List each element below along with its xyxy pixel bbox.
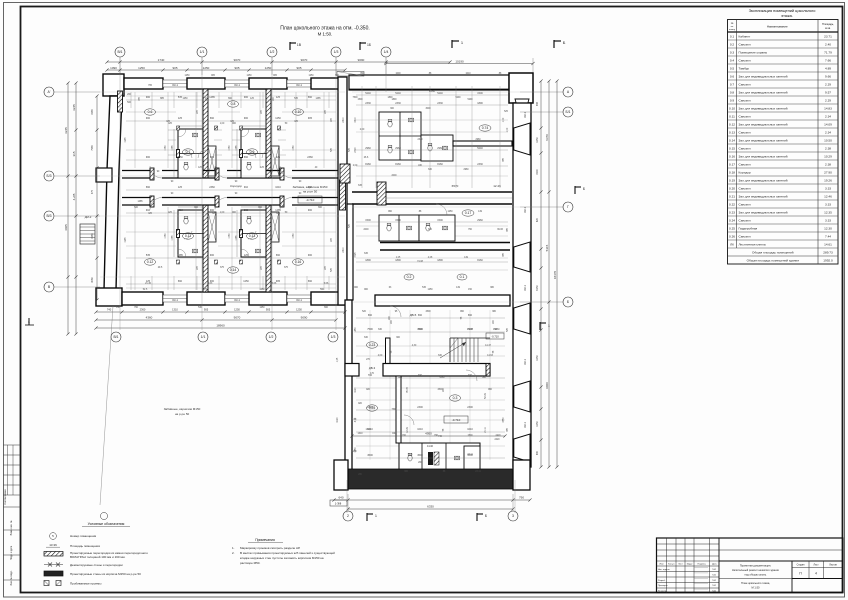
svg-text:71.79: 71.79 bbox=[824, 50, 832, 54]
svg-text:Забивка, кирпичом М150: Забивка, кирпичом М150 bbox=[293, 185, 328, 189]
svg-text:0.10: 0.10 bbox=[729, 106, 735, 110]
svg-text:1890: 1890 bbox=[391, 99, 397, 101]
svg-text:5290: 5290 bbox=[455, 97, 461, 99]
svg-text:Санузел: Санузел bbox=[739, 98, 751, 102]
svg-text:790: 790 bbox=[519, 496, 524, 500]
svg-text:1250: 1250 bbox=[184, 75, 190, 77]
svg-text:14.63: 14.63 bbox=[487, 355, 493, 357]
svg-text:1250: 1250 bbox=[447, 211, 453, 213]
svg-text:Лестничная клетка: Лестничная клетка bbox=[739, 242, 766, 246]
svg-text:Санузел: Санузел bbox=[739, 218, 751, 222]
right block top wall bbox=[349, 75, 509, 90]
legend item demolished walls bbox=[44, 564, 63, 566]
svg-text:П-02: П-02 bbox=[712, 569, 716, 571]
svg-text:7.66: 7.66 bbox=[825, 58, 831, 62]
svg-text:2360: 2360 bbox=[209, 186, 215, 189]
horizontal axis lines right bbox=[352, 91, 520, 93]
svg-text:П-02: П-02 bbox=[712, 574, 716, 576]
door arcs pods bottom row bbox=[184, 231, 192, 239]
left small chain bbox=[96, 96, 98, 300]
svg-text:Б/3: Б/3 bbox=[46, 174, 51, 178]
svg-text:289.73: 289.73 bbox=[823, 251, 833, 255]
tower room labels bbox=[404, 274, 414, 280]
section mark Б top bbox=[553, 40, 555, 48]
svg-text:7965: 7965 bbox=[91, 145, 94, 151]
svg-text:А': А' bbox=[48, 90, 51, 94]
svg-text:5240: 5240 bbox=[395, 92, 401, 95]
svg-text:Зал для индивидуальных занятий: Зал для индивидуальных занятий bbox=[739, 74, 788, 78]
svg-text:Пробиваемые проемы: Пробиваемые проемы bbox=[70, 582, 101, 586]
svg-text:2.34: 2.34 bbox=[825, 130, 831, 134]
svg-text:Зал для индивидуальных занятий: Зал для индивидуальных занятий bbox=[739, 210, 788, 214]
svg-text:375: 375 bbox=[91, 189, 94, 194]
svg-text:4950: 4950 bbox=[425, 432, 432, 436]
svg-text:0.3: 0.3 bbox=[730, 50, 735, 54]
svg-text:Зал для индивидуальных занятий: Зал для индивидуальных занятий bbox=[739, 154, 788, 158]
corridor column left bbox=[377, 182, 386, 205]
svg-text:35.05: 35.05 bbox=[407, 386, 409, 392]
svg-text:660: 660 bbox=[468, 314, 473, 317]
svg-text:12.30: 12.30 bbox=[824, 226, 832, 230]
svg-text:ОК-1: ОК-1 bbox=[172, 83, 178, 87]
svg-text:1250: 1250 bbox=[234, 308, 240, 312]
flag 1ЭФ bbox=[330, 500, 347, 506]
wall to right wall bbox=[453, 141, 512, 146]
window trapezoid 4 bbox=[514, 381, 530, 412]
left dim chain 2 bbox=[75, 83, 77, 334]
svg-text:1485: 1485 bbox=[137, 201, 143, 203]
svg-text:-0.710: -0.710 bbox=[491, 335, 499, 339]
svg-text:5.66: 5.66 bbox=[272, 283, 277, 285]
svg-text:0.16: 0.16 bbox=[295, 260, 302, 264]
svg-text:0.15: 0.15 bbox=[729, 146, 735, 150]
window ОК-1 bottom bbox=[225, 295, 249, 302]
room label 0.10 bbox=[293, 109, 304, 115]
faint interior lines left block bbox=[126, 111, 176, 113]
svg-text:2410: 2410 bbox=[343, 247, 345, 253]
legend item new brick walls bbox=[44, 571, 63, 576]
svg-text:ДВ-3: ДВ-3 bbox=[369, 366, 376, 370]
svg-text:1250: 1250 bbox=[536, 355, 539, 361]
svg-text:1000: 1000 bbox=[417, 329, 423, 331]
svg-text:ОК-1: ОК-1 bbox=[296, 83, 302, 87]
svg-text:1890: 1890 bbox=[477, 102, 483, 105]
wall below corridor bbox=[375, 295, 510, 306]
block border wall bbox=[338, 77, 347, 305]
svg-text:Согласовано: Согласовано bbox=[3, 489, 7, 505]
svg-text:0.74: 0.74 bbox=[482, 126, 489, 130]
svg-text:4500: 4500 bbox=[367, 454, 373, 457]
section mark 1 top bbox=[451, 40, 453, 48]
svg-text:14.09: 14.09 bbox=[824, 122, 832, 126]
svg-text:М 1:50.: М 1:50. bbox=[318, 32, 333, 37]
svg-text:900: 900 bbox=[308, 254, 313, 257]
svg-text:4+05: 4+05 bbox=[72, 193, 76, 200]
svg-text:Коридор: Коридор bbox=[230, 184, 242, 188]
room 0.23 label bbox=[367, 342, 378, 348]
svg-text:700: 700 bbox=[468, 374, 473, 377]
svg-text:1010: 1010 bbox=[417, 428, 423, 431]
svg-text:1/1: 1/1 bbox=[200, 50, 205, 54]
legend item new partitions bbox=[44, 552, 63, 557]
bottom dim chain A bbox=[96, 311, 345, 313]
svg-text:5315: 5315 bbox=[545, 244, 549, 251]
svg-text:4,28: 4,28 bbox=[428, 257, 433, 259]
svg-text:кладке наружных стен пустоты з: кладке наружных стен пустоты заложить ки… bbox=[240, 556, 324, 560]
party wall 1 top row bbox=[203, 89, 208, 178]
svg-text:2960: 2960 bbox=[477, 219, 483, 222]
svg-text:1250: 1250 bbox=[177, 156, 183, 159]
svg-text:1780: 1780 bbox=[229, 145, 231, 151]
svg-text:5240: 5240 bbox=[477, 147, 483, 150]
svg-text:9070: 9070 bbox=[234, 316, 241, 320]
svg-text:19.26: 19.26 bbox=[824, 178, 832, 182]
svg-text:Стадия: Стадия bbox=[797, 565, 806, 567]
svg-text:№: № bbox=[731, 22, 734, 25]
svg-text:1250: 1250 bbox=[203, 66, 210, 70]
sanitary pod bottom-left 1 bbox=[178, 210, 203, 257]
pilaster bottom-left white bbox=[334, 460, 348, 490]
svg-text:1250: 1250 bbox=[355, 447, 357, 453]
room label 0.11 bbox=[183, 233, 194, 239]
section flag 6 left bbox=[28, 318, 30, 325]
svg-text:М 1:50: М 1:50 bbox=[752, 586, 760, 590]
svg-text:4140: 4140 bbox=[427, 444, 434, 448]
svg-text:1900: 1900 bbox=[536, 169, 539, 175]
corridor wall line 2 bbox=[352, 203, 512, 205]
corridor upper wall bbox=[122, 170, 150, 172]
svg-text:0.1: 0.1 bbox=[460, 275, 465, 279]
svg-text:Тамбур: Тамбур bbox=[739, 66, 750, 70]
bottom pods of tower bbox=[399, 443, 480, 471]
svg-text:23.11: 23.11 bbox=[475, 471, 481, 473]
wall ticks bbox=[177, 126, 180, 130]
room label 0.9 bbox=[247, 149, 258, 155]
svg-text:2360: 2360 bbox=[140, 308, 146, 312]
svg-text:21.11: 21.11 bbox=[485, 426, 487, 432]
svg-text:1250: 1250 bbox=[265, 66, 272, 70]
svg-text:900: 900 bbox=[146, 96, 151, 99]
svg-text:9060: 9060 bbox=[545, 382, 549, 389]
tower bottom wall (solid dark) bbox=[348, 469, 513, 489]
svg-text:2.29: 2.29 bbox=[825, 82, 831, 86]
texture dims above bottom wall bbox=[130, 276, 132, 290]
bottom dim chain C bbox=[96, 327, 345, 329]
svg-text:0.1: 0.1 bbox=[730, 34, 735, 38]
vertical axis lines bbox=[119, 57, 121, 330]
svg-text:ЛК: ЛК bbox=[730, 242, 734, 246]
svg-text:Г: Г bbox=[567, 205, 569, 209]
svg-text:Площадь помещения: Площадь помещения bbox=[70, 544, 100, 548]
svg-text:0.6: 0.6 bbox=[730, 74, 735, 78]
room label 0.8 bbox=[228, 101, 239, 107]
svg-text:Площадь,: Площадь, bbox=[822, 22, 834, 26]
svg-text:640: 640 bbox=[338, 496, 343, 500]
svg-text:1310: 1310 bbox=[365, 429, 371, 431]
svg-text:125: 125 bbox=[178, 186, 183, 189]
svg-text:1780: 1780 bbox=[165, 233, 167, 239]
svg-text:Подпись: Подпись bbox=[698, 564, 706, 566]
svg-text:900: 900 bbox=[210, 209, 215, 212]
svg-text:6370: 6370 bbox=[545, 134, 549, 141]
svg-text:1250: 1250 bbox=[275, 117, 281, 120]
svg-text:6150: 6150 bbox=[536, 285, 539, 291]
svg-text:905: 905 bbox=[172, 66, 177, 70]
room label 0.7 bbox=[183, 149, 194, 155]
svg-text:Условные обозначения: Условные обозначения bbox=[88, 522, 125, 526]
room label 0.16 bbox=[293, 259, 304, 265]
small room right of pods bbox=[464, 446, 480, 471]
svg-text:1965: 1965 bbox=[91, 109, 94, 115]
svg-text:125: 125 bbox=[244, 254, 249, 257]
svg-text:1785: 1785 bbox=[236, 235, 238, 241]
leader end circle bbox=[100, 512, 107, 519]
svg-text:9070: 9070 bbox=[234, 58, 241, 62]
svg-text:1,00: 1,00 bbox=[352, 419, 357, 421]
svg-text:900: 900 bbox=[146, 156, 151, 159]
svg-text:0.8: 0.8 bbox=[231, 102, 236, 106]
svg-text:2.38: 2.38 bbox=[825, 162, 831, 166]
svg-text:1785: 1785 bbox=[236, 145, 238, 151]
top wall segment A bbox=[124, 78, 163, 89]
svg-text:В/1: В/1 bbox=[113, 335, 118, 339]
svg-text:1780: 1780 bbox=[165, 145, 167, 151]
svg-text:0.17: 0.17 bbox=[729, 162, 735, 166]
demolished dashes top bbox=[337, 72, 364, 77]
svg-text:7.44: 7.44 bbox=[825, 234, 831, 238]
corridor lower wall bbox=[122, 197, 150, 199]
svg-text:ДМ-3: ДМ-3 bbox=[85, 215, 92, 219]
svg-text:0.6: 0.6 bbox=[148, 110, 153, 114]
svg-text:905: 905 bbox=[296, 66, 301, 70]
svg-text:0.4: 0.4 bbox=[730, 58, 735, 62]
section mark 1В bbox=[289, 42, 291, 50]
svg-text:1250: 1250 bbox=[296, 308, 302, 312]
svg-text:2: 2 bbox=[347, 514, 349, 518]
svg-text:73.5: 73.5 bbox=[408, 454, 413, 456]
svg-text:660: 660 bbox=[308, 280, 313, 283]
svg-text:10190: 10190 bbox=[455, 59, 464, 63]
svg-text:2330: 2330 bbox=[477, 163, 483, 166]
block border wall hatch bbox=[340, 180, 346, 210]
svg-text:1/3: 1/3 bbox=[331, 335, 336, 339]
svg-text:13.36: 13.36 bbox=[49, 543, 57, 547]
note box -0.710 bbox=[298, 196, 322, 203]
svg-text:1/1: 1/1 bbox=[201, 335, 206, 339]
svg-text:1250: 1250 bbox=[246, 75, 252, 77]
svg-text:Санузел: Санузел bbox=[739, 202, 751, 206]
svg-text:8160: 8160 bbox=[365, 163, 371, 166]
svg-text:Лист: Лист bbox=[678, 564, 683, 566]
svg-text:2300: 2300 bbox=[367, 406, 373, 409]
pilaster bottom-left bbox=[96, 288, 122, 306]
top grid bubbles bbox=[115, 47, 125, 57]
svg-text:1250: 1250 bbox=[308, 75, 314, 77]
svg-text:2330: 2330 bbox=[395, 102, 401, 105]
svg-text:1500: 1500 bbox=[467, 435, 473, 437]
svg-text:9090: 9090 bbox=[358, 58, 365, 62]
svg-text:1000: 1000 bbox=[395, 73, 401, 75]
svg-text:Б: Б bbox=[563, 40, 566, 45]
section mark 1Б bbox=[359, 42, 361, 50]
top dimension chain 2 bbox=[107, 69, 345, 71]
svg-text:3.33: 3.33 bbox=[825, 186, 831, 190]
svg-text:1780: 1780 bbox=[293, 233, 295, 239]
svg-text:700: 700 bbox=[418, 374, 423, 377]
svg-text:Демонтируемые стены и перегоро: Демонтируемые стены и перегородки bbox=[70, 563, 123, 567]
room label 0.6 bbox=[145, 109, 156, 115]
svg-text:14.61: 14.61 bbox=[824, 242, 832, 246]
tower left wall bbox=[345, 300, 352, 478]
svg-text:Проектируемые стены из кирпича: Проектируемые стены из кирпича М150 на р… bbox=[70, 572, 141, 576]
svg-text:№док: №док bbox=[687, 563, 693, 566]
svg-text:39.06: 39.06 bbox=[497, 229, 503, 231]
svg-text:535: 535 bbox=[146, 254, 151, 257]
right dim chain 1 bbox=[540, 81, 542, 467]
sanitary pod top-left 1 bbox=[178, 129, 203, 178]
svg-text:2330: 2330 bbox=[417, 139, 423, 141]
svg-text:1.: 1. bbox=[232, 546, 235, 550]
svg-text:Зал для индивидуальных занятий: Зал для индивидуальных занятий bbox=[739, 138, 788, 142]
svg-text:1,00: 1,00 bbox=[220, 123, 225, 125]
svg-text:0.23: 0.23 bbox=[369, 343, 376, 347]
svg-text:26.6: 26.6 bbox=[364, 157, 369, 159]
svg-text:1,00: 1,00 bbox=[220, 212, 225, 214]
svg-text:П-02: П-02 bbox=[712, 585, 716, 587]
window ОК-1 bbox=[163, 80, 187, 87]
svg-text:3060: 3060 bbox=[91, 277, 94, 283]
door arcs corridor bottom bbox=[150, 198, 162, 210]
svg-text:5240: 5240 bbox=[365, 92, 371, 95]
bottom wall segment B bbox=[187, 292, 225, 305]
svg-text:1/2: 1/2 bbox=[269, 335, 274, 339]
svg-text:Санузел: Санузел bbox=[739, 186, 751, 190]
svg-text:8160: 8160 bbox=[437, 163, 443, 166]
svg-text:ОК-1: ОК-1 bbox=[234, 83, 240, 87]
svg-text:2000: 2000 bbox=[391, 175, 397, 177]
svg-text:660: 660 bbox=[146, 186, 151, 189]
corridor column 3 bbox=[280, 168, 284, 180]
svg-text:Кабинет: Кабинет bbox=[739, 34, 751, 38]
room label 0.14b bbox=[479, 125, 491, 131]
svg-text:1010: 1010 bbox=[177, 209, 183, 212]
svg-text:10.50: 10.50 bbox=[824, 138, 832, 142]
svg-text:1,00: 1,00 bbox=[507, 127, 509, 132]
hatched demolition block bbox=[340, 164, 350, 183]
svg-text:125: 125 bbox=[276, 156, 281, 159]
pilaster top-right bbox=[509, 73, 533, 103]
svg-text:1310: 1310 bbox=[172, 308, 178, 312]
top wall segment C bbox=[249, 78, 287, 89]
svg-text:4500: 4500 bbox=[425, 311, 431, 313]
svg-text:125: 125 bbox=[276, 96, 281, 99]
svg-text:4: 4 bbox=[815, 572, 817, 576]
svg-text:П-02: П-02 bbox=[712, 591, 716, 593]
svg-text:9.63: 9.63 bbox=[208, 283, 213, 285]
tower top dim 4950 bbox=[352, 435, 505, 437]
faint interior lines tower bbox=[356, 345, 505, 347]
svg-text:1992.0: 1992.0 bbox=[823, 259, 833, 263]
svg-text:3.33: 3.33 bbox=[825, 218, 831, 222]
svg-text:905: 905 bbox=[266, 308, 271, 312]
svg-text:Изм: Изм bbox=[660, 564, 664, 566]
svg-text:1450: 1450 bbox=[355, 327, 357, 333]
svg-text:660: 660 bbox=[418, 314, 423, 317]
svg-text:4500: 4500 bbox=[417, 454, 423, 457]
mid pods right block bbox=[379, 215, 419, 241]
svg-text:2300: 2300 bbox=[467, 406, 473, 409]
right grid bubbles bbox=[563, 87, 573, 97]
svg-text:660: 660 bbox=[210, 117, 215, 120]
svg-text:820: 820 bbox=[536, 217, 539, 222]
left grid bubbles bbox=[44, 87, 54, 97]
svg-text:1250: 1250 bbox=[536, 421, 539, 427]
svg-text:4120: 4120 bbox=[355, 387, 357, 393]
sanitary pod bottom-left 2 bbox=[241, 210, 266, 257]
svg-text:7590: 7590 bbox=[391, 409, 397, 411]
left outer wall (slanted) bbox=[104, 96, 122, 290]
svg-text:0.16: 0.16 bbox=[729, 154, 735, 158]
svg-text:1785: 1785 bbox=[172, 145, 174, 151]
svg-text:18470: 18470 bbox=[553, 270, 557, 279]
tower bottom dim 1 bbox=[334, 499, 530, 501]
party wall 2 top row bbox=[266, 89, 271, 178]
svg-text:1965: 1965 bbox=[91, 233, 94, 239]
window ОК-1 bottom bbox=[287, 295, 311, 302]
window ОК-1 bottom bbox=[163, 295, 187, 302]
svg-text:Проверил: Проверил bbox=[658, 585, 668, 587]
svg-text:0.7: 0.7 bbox=[186, 150, 191, 154]
svg-text:0.23: 0.23 bbox=[729, 210, 735, 214]
svg-text:4,00: 4,00 bbox=[378, 355, 383, 357]
svg-text:1/3: 1/3 bbox=[334, 50, 339, 54]
svg-text:м кв.: м кв. bbox=[825, 27, 831, 30]
svg-text:ОК-1: ОК-1 bbox=[523, 207, 527, 213]
svg-text:2.38: 2.38 bbox=[825, 146, 831, 150]
door arcs corridor top bbox=[150, 166, 162, 178]
svg-text:9.66: 9.66 bbox=[825, 74, 831, 78]
svg-text:2.34: 2.34 bbox=[825, 114, 831, 118]
leader to note bbox=[100, 306, 113, 505]
svg-text:8160: 8160 bbox=[429, 89, 436, 93]
svg-text:3245: 3245 bbox=[72, 104, 76, 111]
svg-text:2.40: 2.40 bbox=[825, 42, 831, 46]
svg-text:Подп. и дата: Подп. и дата bbox=[10, 545, 13, 560]
party wall 1 bottom row bbox=[203, 205, 208, 292]
svg-text:Нач. отдела: Нач. отдела bbox=[658, 569, 670, 571]
svg-text:5.66: 5.66 bbox=[324, 283, 329, 285]
svg-text:1890: 1890 bbox=[395, 259, 401, 262]
svg-text:8160: 8160 bbox=[395, 163, 401, 166]
svg-text:4,30: 4,30 bbox=[412, 345, 417, 347]
svg-text:1965: 1965 bbox=[125, 137, 127, 143]
svg-text:Гардеробная: Гардеробная bbox=[739, 226, 758, 230]
svg-text:905: 905 bbox=[276, 280, 281, 283]
svg-text:1250: 1250 bbox=[536, 137, 539, 143]
bottom wall segment D bbox=[311, 292, 345, 305]
svg-text:ОК-1: ОК-1 bbox=[234, 298, 240, 302]
corridor column 4 bbox=[150, 196, 154, 207]
svg-text:Забивные, карнизов М150: Забивные, карнизов М150 bbox=[164, 407, 201, 411]
svg-text:0.21: 0.21 bbox=[729, 194, 735, 198]
svg-text:В/1: В/1 bbox=[117, 50, 122, 54]
svg-text:900: 900 bbox=[244, 117, 249, 120]
svg-text:2960: 2960 bbox=[463, 169, 469, 171]
svg-text:660: 660 bbox=[308, 96, 313, 99]
svg-text:В/3: В/3 bbox=[46, 214, 51, 218]
svg-text:0.10: 0.10 bbox=[295, 110, 302, 114]
svg-text:0.14: 0.14 bbox=[729, 138, 735, 142]
